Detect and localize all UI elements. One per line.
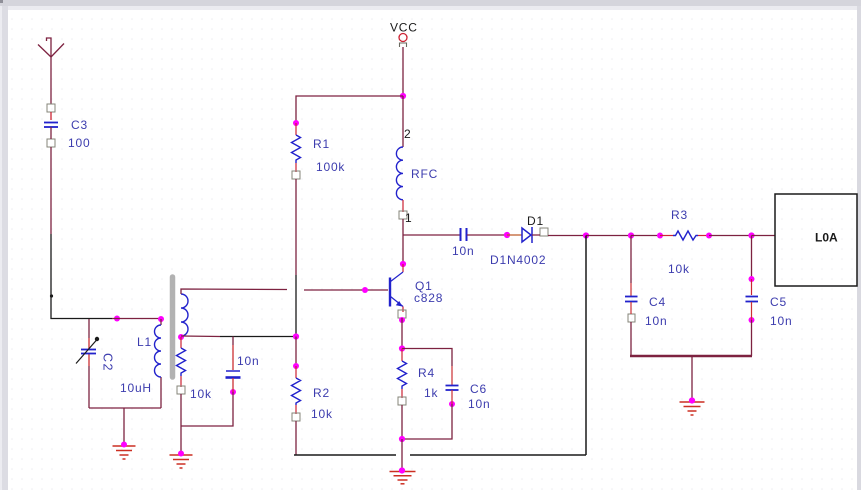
junction dot diode anode bbox=[504, 232, 510, 238]
junction dot R3 right bbox=[706, 233, 712, 239]
wire right edge bottom stub bbox=[160, 377, 162, 408]
svg-text:VCC: VCC bbox=[390, 21, 418, 35]
junction dot secondary bottom bbox=[178, 334, 184, 340]
wire R4 bottom to loop bbox=[401, 405, 403, 439]
svg-text:10k: 10k bbox=[668, 262, 690, 276]
svg-text:C5: C5 bbox=[770, 295, 787, 309]
resistor R3 bbox=[673, 231, 698, 240]
wire bottom edge bbox=[89, 407, 161, 409]
junction dot below emitter box bbox=[399, 317, 405, 323]
wire emitter down bbox=[401, 318, 403, 349]
transistor Q1 bbox=[402, 264, 404, 272]
pin stub 10k bottom bbox=[180, 376, 182, 387]
svg-text:10k: 10k bbox=[190, 387, 212, 401]
svg-text:10n: 10n bbox=[237, 354, 259, 368]
diode D1 bbox=[522, 227, 532, 243]
svg-text:10k: 10k bbox=[311, 407, 333, 421]
capacitor C5 bbox=[746, 297, 759, 302]
junction dot R1 top bbox=[293, 120, 299, 126]
svg-text:R3: R3 bbox=[671, 208, 688, 222]
wire C4 branch bbox=[630, 236, 632, 284]
wire cap to diode bbox=[467, 234, 507, 236]
ground transformer bbox=[170, 455, 193, 468]
wire C4 bottom bbox=[630, 302, 632, 314]
wire secondary junction (maroon part) bbox=[181, 335, 220, 338]
capacitor 10n secondary bbox=[226, 370, 240, 372]
junction dot emitter node bbox=[399, 345, 405, 351]
inductor RFC bbox=[396, 147, 403, 200]
junction dot below 10n bbox=[230, 389, 236, 395]
svg-text:R4: R4 bbox=[418, 366, 435, 380]
junction dot C5 top bbox=[748, 232, 754, 238]
svg-text:2: 2 bbox=[404, 127, 411, 141]
wire tank top right bbox=[112, 318, 161, 320]
wire C5 node to LOA bbox=[752, 235, 776, 237]
wire left edge upper bbox=[88, 319, 90, 338]
svg-text:100: 100 bbox=[68, 136, 90, 150]
ground tank bbox=[113, 446, 136, 459]
capacitor C3 bbox=[44, 123, 58, 128]
svg-text:D1N4002: D1N4002 bbox=[490, 253, 546, 267]
wire RFC to collector node bbox=[402, 219, 404, 264]
junction dot loop bottom bbox=[399, 436, 405, 442]
junction dot C6 bottom bbox=[449, 401, 455, 407]
capacitor 10n coupling bbox=[461, 228, 467, 241]
capacitor C2 (variable) plates bbox=[81, 350, 96, 354]
junction dot collector bbox=[400, 261, 406, 267]
svg-text:10n: 10n bbox=[452, 244, 474, 258]
wire C3 down (maroon) bbox=[50, 127, 52, 234]
capacitor C6 bbox=[446, 386, 459, 391]
pin box antenna bbox=[47, 104, 55, 112]
corner mark bbox=[0, 0, 3, 3]
pin stub R1 bottom bbox=[295, 163, 297, 172]
wire C3 down (black segment) bbox=[51, 234, 112, 319]
junction dot R2 top bbox=[293, 363, 299, 369]
svg-text:c828: c828 bbox=[414, 291, 443, 305]
wire antenna to C3 bbox=[50, 112, 52, 120]
pin box RFC bbox=[399, 211, 407, 219]
svg-text:1k: 1k bbox=[424, 386, 438, 400]
junction dot C4 top bbox=[628, 232, 634, 238]
svg-text:100k: 100k bbox=[316, 160, 345, 174]
svg-text:R2: R2 bbox=[313, 386, 330, 400]
junction dot C5 mid bbox=[749, 276, 755, 282]
svg-text:10uH: 10uH bbox=[120, 381, 152, 395]
wire collector to coupling cap bbox=[403, 234, 460, 236]
LOA block bbox=[775, 194, 857, 286]
wire 10k bottom to ground bbox=[180, 394, 182, 453]
pin box C3 bottom bbox=[47, 139, 55, 147]
svg-text:1: 1 bbox=[405, 211, 412, 225]
wire C5 branch bbox=[751, 236, 753, 280]
pin stub R3 left bbox=[660, 235, 673, 237]
wire VCC node to R1 bbox=[296, 96, 403, 123]
wire left edge lower bbox=[88, 366, 90, 408]
wire bias node to R2 bbox=[295, 337, 297, 367]
resistor R1 bbox=[295, 123, 297, 135]
junction dot base wire bbox=[362, 287, 368, 293]
svg-text:10n: 10n bbox=[645, 314, 667, 328]
svg-text:C6: C6 bbox=[470, 382, 487, 396]
svg-text:L0A: L0A bbox=[815, 231, 838, 245]
pin stubs C2 bbox=[88, 338, 90, 366]
wire secondary junction to R2 node (black) bbox=[220, 336, 296, 338]
svg-text:C2: C2 bbox=[101, 353, 115, 372]
wire right edge top stub bbox=[160, 319, 162, 325]
capacitor 10n secondary branch wire bbox=[232, 337, 234, 346]
wire bus to ground bbox=[691, 356, 693, 400]
wire base net right part bbox=[304, 289, 388, 291]
wire C4-C5 bus bbox=[630, 355, 752, 357]
wire node to R3 bbox=[631, 235, 660, 237]
wire R3 to C5 node bbox=[709, 235, 752, 237]
junction dot C5 bottom bbox=[749, 317, 755, 323]
wire secondary top to base net bbox=[181, 289, 287, 294]
pin stub RFC bottom bbox=[402, 200, 404, 212]
wire 10n bottom loop bbox=[232, 378, 234, 392]
window chrome top band bbox=[0, 0, 861, 6]
ground C4/C5 bbox=[680, 402, 705, 415]
inductor L1 winding bbox=[155, 325, 162, 377]
wire loop to ground bbox=[401, 439, 403, 470]
pin box 10k secondary bbox=[177, 386, 185, 394]
transformer core bbox=[170, 277, 176, 377]
node dot on antenna net bbox=[50, 294, 53, 297]
pin box R4 bbox=[398, 397, 406, 405]
pin box R2 bbox=[292, 413, 300, 421]
pin stub diode anode bbox=[507, 234, 522, 236]
wire output node to C4 bbox=[586, 235, 631, 237]
resistor 10k secondary bbox=[180, 337, 182, 348]
wire R2 bottom to ground rail bbox=[295, 421, 297, 455]
pin stub R2 bottom bbox=[295, 405, 297, 414]
wire ground stub tank bbox=[123, 408, 125, 444]
junction dot VCC node bbox=[400, 93, 406, 99]
svg-text:RFC: RFC bbox=[411, 167, 438, 181]
wire R1 bottom down (maroon) bbox=[295, 179, 297, 275]
junction dot output node bbox=[583, 232, 589, 238]
window chrome left band bbox=[0, 6, 8, 490]
capacitor C4 bbox=[625, 297, 638, 302]
C2 arrow bbox=[76, 340, 97, 364]
ground emitter bbox=[390, 472, 416, 484]
junction dot R3 left bbox=[657, 233, 663, 239]
svg-text:C3: C3 bbox=[71, 118, 88, 132]
tank circuit box wires (C2 / L1 loop) bbox=[89, 319, 161, 408]
pin stub C5 bbox=[751, 279, 753, 295]
window chrome right band bbox=[857, 6, 861, 490]
svg-text:D1: D1 bbox=[527, 214, 544, 228]
black return wire vertical bbox=[585, 236, 587, 456]
wire C6 bottom / loop bottom bbox=[451, 390, 453, 404]
pin box Q1 emitter bbox=[398, 310, 406, 318]
pin box R1 bbox=[292, 171, 300, 179]
transformer secondary winding bbox=[181, 294, 188, 336]
pin stub R4 bottom bbox=[401, 389, 403, 398]
black return wire bottom bbox=[294, 454, 586, 456]
svg-text:C4: C4 bbox=[649, 295, 666, 309]
wire R1 bottom down (black) bbox=[295, 275, 297, 337]
resistor R4 bbox=[401, 349, 403, 362]
pin box C4 bottom bbox=[628, 314, 635, 322]
wire VCC node to RFC bbox=[402, 96, 404, 147]
wire diode to output node bbox=[532, 234, 586, 237]
svg-text:10n: 10n bbox=[770, 314, 792, 328]
svg-text:R1: R1 bbox=[313, 137, 330, 151]
svg-text:10n: 10n bbox=[468, 397, 490, 411]
junction dot tank top bbox=[114, 316, 120, 322]
junction dot bias node bbox=[293, 333, 299, 339]
pin stub R3 right bbox=[698, 235, 709, 237]
wire VCC down bbox=[402, 47, 404, 96]
wire C5 bottom bbox=[751, 302, 753, 320]
svg-text:L1: L1 bbox=[137, 335, 152, 349]
wire R4/C6 loop top bbox=[402, 349, 452, 367]
junction dot tank top-right corner bbox=[158, 316, 164, 322]
resistor R2 bbox=[295, 366, 297, 378]
pin box D1 cathode bbox=[540, 228, 548, 236]
antenna bbox=[38, 38, 64, 104]
